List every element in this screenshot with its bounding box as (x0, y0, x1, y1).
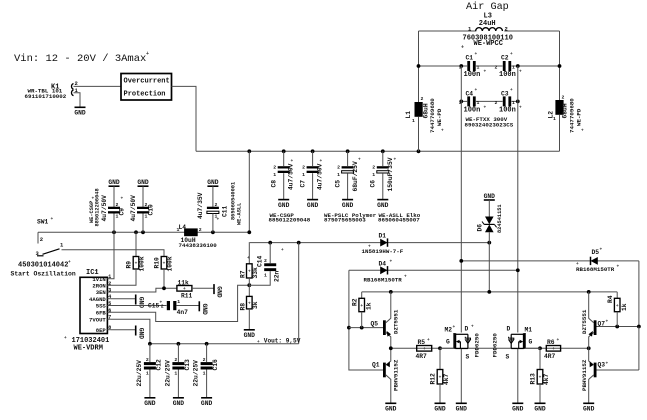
svg-text:1: 1 (372, 172, 375, 178)
svg-text:2: 2 (199, 227, 202, 233)
svg-text:+: + (617, 265, 620, 270)
svg-text:RB168M150TR: RB168M150TR (576, 266, 615, 273)
svg-text:1: 1 (553, 116, 556, 122)
svg-text:22n: 22n (274, 270, 281, 282)
svg-text:C14: C14 (257, 255, 264, 267)
svg-text:1: 1 (512, 100, 515, 106)
svg-text:SW1: SW1 (37, 218, 49, 225)
svg-text:1k: 1k (621, 303, 628, 311)
svg-text:+: + (146, 51, 149, 57)
svg-text:4u7/50V: 4u7/50V (288, 163, 295, 190)
svg-text:R2: R2 (351, 298, 358, 306)
svg-text:33k: 33k (252, 267, 259, 279)
svg-text:DZT5551: DZT5551 (581, 309, 588, 334)
svg-text:2: 2 (337, 164, 340, 170)
svg-text:+: + (557, 338, 560, 343)
svg-text:R12: R12 (430, 373, 437, 385)
svg-text:2: 2 (116, 202, 119, 208)
svg-text:11k: 11k (178, 280, 190, 287)
svg-text:68uH: 68uH (562, 103, 569, 118)
svg-text:890324023023CS: 890324023023CS (465, 122, 514, 129)
svg-text:C1: C1 (466, 55, 474, 62)
svg-text:GND: GND (342, 202, 354, 209)
svg-text:GND: GND (456, 406, 468, 413)
svg-text:R9: R9 (126, 261, 133, 269)
svg-text:D6: D6 (477, 224, 484, 232)
svg-text:4n7: 4n7 (177, 309, 189, 316)
svg-text:4k7: 4k7 (443, 373, 450, 385)
svg-text:+: + (510, 52, 513, 57)
svg-text:2: 2 (108, 281, 111, 287)
svg-text:L1: L1 (405, 111, 412, 119)
svg-text:+: + (581, 129, 584, 134)
svg-text:4u7/50V: 4u7/50V (317, 163, 324, 190)
svg-text:GND: GND (144, 400, 156, 407)
svg-text:+: + (95, 269, 98, 274)
svg-text:R4: R4 (607, 295, 614, 303)
svg-text:G: G (446, 339, 450, 346)
svg-text:FDD6250: FDD6250 (491, 333, 498, 358)
svg-text:+: + (552, 347, 555, 352)
svg-text:D4: D4 (379, 261, 387, 268)
svg-text:WE-PD: WE-PD (576, 108, 583, 126)
svg-text:1: 1 (412, 118, 415, 124)
svg-text:+: + (92, 197, 95, 202)
svg-text:C16: C16 (212, 359, 219, 371)
svg-text:2: 2 (562, 95, 565, 101)
svg-text:R5: R5 (418, 339, 426, 346)
svg-text:GND: GND (278, 202, 290, 209)
svg-text:24uH: 24uH (479, 20, 496, 28)
svg-text:M1: M1 (525, 326, 533, 333)
svg-text:+: + (248, 270, 251, 275)
svg-text:Q1: Q1 (372, 362, 380, 369)
svg-text:+: + (281, 248, 284, 253)
svg-text:+: + (64, 336, 67, 341)
svg-text:S: S (466, 354, 470, 361)
svg-text:824541151: 824541151 (497, 204, 503, 233)
svg-text:1: 1 (177, 299, 180, 305)
svg-text:+: + (404, 275, 407, 280)
svg-text:FDD6250: FDD6250 (473, 333, 480, 358)
svg-text:GND: GND (583, 406, 595, 413)
svg-text:PBHV9115Z: PBHV9115Z (581, 359, 588, 391)
svg-text:2: 2 (421, 96, 424, 102)
svg-text:GND: GND (137, 179, 149, 186)
svg-text:2: 2 (264, 258, 267, 264)
svg-text:4u7/50V: 4u7/50V (101, 195, 108, 222)
svg-text:+: + (475, 88, 478, 93)
svg-text:Vin: 12 - 20V / 3Amax: Vin: 12 - 20V / 3Amax (14, 53, 146, 65)
svg-text:100n: 100n (464, 71, 481, 79)
svg-text:Air Gap: Air Gap (466, 1, 509, 13)
svg-text:GND: GND (534, 406, 546, 413)
svg-text:100n: 100n (499, 71, 516, 79)
svg-text:C8: C8 (271, 180, 278, 188)
svg-text:865060455007: 865060455007 (378, 217, 420, 224)
svg-text:+: + (160, 301, 163, 306)
svg-text:885012206048: 885012206048 (95, 188, 101, 226)
svg-text:1: 1 (174, 371, 177, 377)
svg-text:D: D (465, 326, 469, 333)
svg-text:1: 1 (477, 100, 480, 106)
svg-text:6: 6 (108, 308, 111, 314)
svg-text:1: 1 (477, 65, 480, 71)
svg-text:450301014042: 450301014042 (18, 262, 68, 270)
svg-text:+: + (439, 376, 442, 381)
svg-text:Protection: Protection (124, 91, 166, 99)
svg-text:L4: L4 (179, 224, 187, 231)
svg-text:875075655003: 875075655003 (324, 217, 366, 224)
svg-text:M2: M2 (445, 326, 453, 333)
svg-text:C2: C2 (501, 55, 509, 62)
svg-text:G: G (529, 339, 533, 346)
svg-text:1: 1 (146, 371, 149, 377)
svg-text:4u7/35V: 4u7/35V (197, 192, 204, 219)
svg-text:22u/25V: 22u/25V (193, 360, 200, 387)
svg-text:74438336100: 74438336100 (179, 242, 218, 249)
svg-text:GND: GND (201, 304, 208, 316)
svg-text:GND: GND (173, 400, 185, 407)
svg-text:GND: GND (108, 179, 120, 186)
svg-text:100n: 100n (464, 106, 481, 114)
svg-text:+: + (394, 158, 397, 163)
svg-text:691101710002: 691101710002 (25, 93, 67, 100)
svg-text:+: + (453, 325, 456, 330)
svg-text:+: + (471, 325, 474, 330)
svg-text:7: 7 (108, 315, 111, 321)
svg-text:2: 2 (495, 65, 498, 71)
svg-text:4u7/50V: 4u7/50V (130, 195, 137, 222)
svg-text:3k: 3k (252, 301, 259, 309)
svg-text:+: + (358, 158, 361, 163)
svg-text:D1: D1 (379, 233, 387, 240)
svg-text:GND: GND (137, 297, 144, 309)
svg-text:C4: C4 (466, 90, 474, 97)
svg-text:+: + (475, 52, 478, 57)
svg-text:7VOUT: 7VOUT (89, 316, 106, 323)
svg-text:1: 1 (273, 172, 276, 178)
svg-text:GND: GND (385, 406, 397, 413)
svg-text:1: 1 (512, 65, 515, 71)
svg-text:C7: C7 (299, 180, 306, 188)
svg-text:+: + (423, 347, 426, 352)
svg-text:1: 1 (264, 273, 267, 279)
svg-text:2: 2 (495, 100, 498, 106)
svg-text:+: + (163, 262, 166, 267)
svg-text:RB168M150TR: RB168M150TR (364, 276, 403, 283)
svg-text:+: + (51, 217, 54, 222)
svg-text:4: 4 (108, 294, 111, 300)
svg-text:8EP: 8EP (96, 327, 107, 334)
svg-text:C3: C3 (501, 90, 509, 97)
svg-text:+: + (135, 262, 138, 267)
svg-text:1: 1 (108, 274, 111, 280)
svg-text:GND: GND (137, 328, 144, 340)
svg-text:+: + (576, 262, 579, 267)
svg-text:GND: GND (512, 406, 524, 413)
svg-text:C15: C15 (148, 302, 160, 309)
svg-text:R13: R13 (530, 373, 537, 385)
svg-text:GND: GND (434, 406, 446, 413)
svg-text:Q5: Q5 (371, 321, 379, 328)
svg-text:Vout: 9,5V: Vout: 9,5V (264, 338, 301, 345)
svg-text:GND: GND (216, 286, 223, 298)
svg-text:GND: GND (207, 179, 219, 186)
svg-text:GND: GND (307, 202, 319, 209)
svg-text:+: + (68, 260, 71, 265)
svg-text:GND: GND (201, 400, 213, 407)
svg-text:C9: C9 (119, 208, 126, 216)
svg-text:D: D (507, 326, 511, 333)
svg-text:2: 2 (215, 202, 218, 208)
svg-text:+: + (291, 159, 294, 164)
svg-text:C10: C10 (148, 204, 155, 216)
svg-text:4k7: 4k7 (543, 373, 550, 385)
svg-text:D5: D5 (592, 249, 600, 256)
svg-text:+: + (368, 245, 371, 250)
svg-text:WE-VDRM: WE-VDRM (74, 344, 103, 352)
svg-text:C13: C13 (184, 359, 191, 371)
svg-text:+: + (390, 260, 393, 265)
svg-text:C12: C12 (156, 359, 163, 371)
svg-text:+: + (606, 362, 609, 367)
svg-text:100k: 100k (139, 256, 146, 271)
svg-text:100k: 100k (167, 256, 174, 271)
svg-text:+: + (257, 340, 260, 345)
svg-text:7447709680: 7447709680 (569, 98, 576, 133)
svg-text:+: + (539, 376, 542, 381)
svg-text:2: 2 (273, 164, 276, 170)
svg-text:+: + (484, 70, 487, 75)
svg-text:C5: C5 (334, 180, 341, 188)
svg-text:8: 8 (108, 325, 111, 331)
svg-text:22u/25V: 22u/25V (136, 360, 143, 387)
svg-text:Overcurrent: Overcurrent (124, 78, 170, 86)
svg-text:+: + (121, 197, 124, 202)
svg-text:DZT5551: DZT5551 (393, 309, 400, 334)
svg-text:+: + (320, 159, 323, 164)
svg-text:GND: GND (244, 332, 256, 339)
svg-text:GND: GND (484, 193, 496, 200)
svg-text:PBHV9115Z: PBHV9115Z (393, 359, 400, 391)
svg-text:3: 3 (108, 288, 111, 294)
svg-text:2: 2 (302, 164, 305, 170)
svg-text:+: + (519, 70, 522, 75)
svg-text:1: 1 (203, 371, 206, 377)
svg-text:+: + (217, 218, 220, 223)
svg-text:1k: 1k (365, 302, 372, 310)
svg-text:+: + (247, 256, 250, 261)
svg-text:4R7: 4R7 (416, 353, 428, 360)
svg-text:885012209048: 885012209048 (269, 217, 311, 224)
svg-text:GND: GND (377, 202, 389, 209)
svg-text:R11: R11 (181, 292, 193, 299)
svg-text:+: + (248, 301, 251, 306)
svg-text:Start Oszillation: Start Oszillation (11, 271, 76, 278)
svg-text:2: 2 (372, 164, 375, 170)
svg-text:+: + (461, 45, 464, 51)
svg-text:R10: R10 (154, 257, 161, 269)
svg-text:+: + (441, 129, 444, 134)
svg-text:2: 2 (146, 357, 149, 363)
svg-text:WE-ASLL: WE-ASLL (237, 203, 243, 225)
svg-text:7447709680: 7447709680 (429, 98, 436, 133)
svg-text:1: 1 (177, 227, 180, 233)
svg-text:+: + (510, 88, 513, 93)
svg-text:S: S (506, 354, 510, 361)
svg-text:2: 2 (203, 357, 206, 363)
svg-text:+: + (427, 338, 430, 343)
svg-text:1: 1 (337, 172, 340, 178)
svg-text:+: + (519, 106, 522, 111)
svg-text:2: 2 (40, 236, 43, 243)
svg-text:100n: 100n (499, 106, 516, 114)
svg-text:22u/25V: 22u/25V (165, 360, 172, 387)
svg-text:4R7: 4R7 (544, 353, 556, 360)
svg-text:Q3: Q3 (598, 362, 606, 369)
svg-text:5: 5 (108, 301, 111, 307)
svg-text:+: + (600, 248, 603, 253)
svg-text:C11: C11 (222, 205, 229, 217)
svg-text:+: + (606, 320, 609, 325)
svg-text:2: 2 (174, 357, 177, 363)
svg-text:+: + (484, 106, 487, 111)
svg-text:WE-PD: WE-PD (436, 108, 443, 126)
svg-text:WE-WPCC: WE-WPCC (474, 40, 503, 48)
svg-text:68uF/25V: 68uF/25V (352, 161, 359, 191)
svg-text:C6: C6 (370, 180, 377, 188)
svg-text:R8: R8 (239, 303, 246, 311)
svg-text:+: + (616, 304, 619, 309)
svg-text:R7: R7 (239, 270, 246, 278)
svg-text:R6: R6 (547, 339, 555, 346)
svg-text:GND: GND (74, 110, 86, 117)
svg-text:+: + (360, 304, 363, 309)
svg-text:2: 2 (505, 26, 508, 33)
svg-text:1: 1 (302, 172, 305, 178)
